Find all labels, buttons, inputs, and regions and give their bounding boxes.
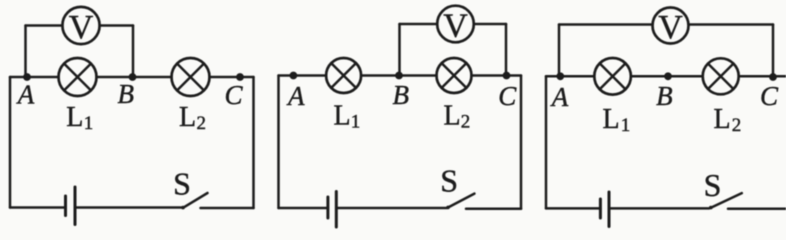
svg-text:V: V — [69, 9, 94, 46]
svg-text:B: B — [393, 80, 410, 110]
svg-text:1: 1 — [84, 113, 94, 134]
svg-text:S: S — [440, 163, 458, 199]
svg-text:1: 1 — [351, 112, 361, 133]
svg-text:V: V — [443, 8, 468, 45]
svg-text:B: B — [118, 79, 135, 109]
svg-text:L: L — [333, 101, 350, 132]
svg-text:L: L — [602, 104, 619, 135]
svg-text:2: 2 — [197, 113, 207, 134]
svg-text:2: 2 — [732, 115, 742, 136]
svg-text:C: C — [224, 80, 243, 110]
svg-text:L: L — [179, 102, 196, 133]
svg-text:L: L — [713, 104, 730, 135]
svg-text:C: C — [498, 81, 517, 111]
svg-text:L: L — [443, 101, 460, 132]
svg-text:V: V — [658, 9, 683, 46]
svg-text:A: A — [286, 81, 305, 111]
svg-text:2: 2 — [461, 112, 471, 133]
svg-text:C: C — [760, 81, 779, 111]
svg-text:A: A — [550, 82, 569, 112]
svg-text:S: S — [704, 167, 722, 203]
svg-text:1: 1 — [621, 115, 631, 136]
svg-text:S: S — [173, 166, 191, 202]
svg-text:A: A — [16, 80, 35, 110]
svg-text:L: L — [66, 102, 83, 133]
svg-text:B: B — [656, 81, 673, 111]
